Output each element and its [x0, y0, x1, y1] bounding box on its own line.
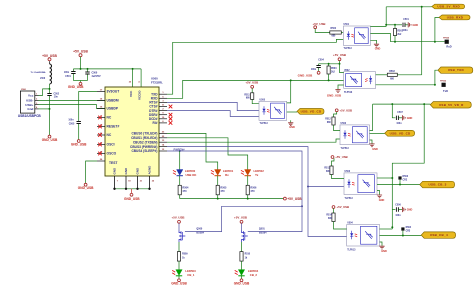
- svg-text:U506: U506: [341, 123, 347, 125]
- svg-text:R503: R503: [331, 68, 337, 70]
- svg-text:CBUS3 (PWREN#): CBUS3 (PWREN#): [130, 145, 157, 149]
- svg-text:USBDP: USBDP: [107, 107, 119, 111]
- svg-text:TLP513: TLP513: [347, 250, 356, 252]
- svg-text:FT232RL: FT232RL: [151, 80, 163, 84]
- svg-text:GND: GND: [124, 167, 128, 175]
- svg-text:U501: U501: [344, 24, 350, 26]
- svg-text:NC: NC: [107, 133, 112, 137]
- svg-text:+5V_USB: +5V_USB: [245, 81, 258, 85]
- svg-text:GND: GND: [381, 250, 387, 253]
- svg-text:NC: NC: [107, 116, 112, 120]
- svg-text:U503: U503: [345, 171, 351, 173]
- svg-text:R514: R514: [326, 214, 332, 217]
- svg-text:RESET#: RESET#: [107, 125, 120, 129]
- svg-text:D503: D503: [403, 176, 409, 178]
- svg-text:GND_USB: GND_USB: [71, 142, 87, 146]
- svg-text:GND_USB: GND_USB: [78, 186, 94, 190]
- svg-text:R511: R511: [244, 94, 250, 96]
- svg-text:USB_RXD: USB_RXD: [447, 16, 464, 20]
- svg-text:R509: R509: [182, 254, 188, 256]
- svg-text:VCCIO: VCCIO: [137, 90, 141, 100]
- svg-text:R502: R502: [389, 71, 395, 73]
- svg-text:+5V_USB: +5V_USB: [313, 22, 326, 26]
- svg-text:L500: L500: [40, 78, 46, 80]
- svg-text:10n: 10n: [54, 96, 59, 98]
- svg-text:Q501: Q501: [259, 227, 266, 230]
- svg-text:+5V_USB: +5V_USB: [172, 215, 185, 219]
- svg-text:TLP513: TLP513: [345, 198, 354, 200]
- svg-text:USB OK: USB OK: [186, 173, 197, 177]
- svg-text:TP500: TP500: [443, 38, 450, 40]
- svg-text:4u7/25V: 4u7/25V: [92, 75, 101, 78]
- svg-text:C502: C502: [54, 93, 60, 95]
- svg-text:GND_USB: GND_USB: [234, 282, 250, 286]
- svg-text:+5V_USB: +5V_USB: [335, 155, 348, 159]
- svg-text:+5V_USB: +5V_USB: [234, 215, 247, 219]
- svg-text:C505: C505: [69, 124, 75, 126]
- svg-text:J500: J500: [21, 89, 27, 91]
- svg-text:GND_USB: GND_USB: [124, 197, 140, 201]
- svg-text:USB_VD_CD: USB_VD_CD: [301, 110, 322, 114]
- svg-text:470: 470: [250, 190, 255, 193]
- svg-text:R500: R500: [331, 28, 337, 30]
- svg-text:100n: 100n: [396, 123, 402, 125]
- svg-text:Gnd: Gnd: [27, 107, 33, 111]
- svg-text:OSCI: OSCI: [107, 143, 115, 147]
- svg-text:TxD: TxD: [443, 89, 448, 93]
- svg-text:BSS84: BSS84: [259, 231, 267, 234]
- svg-text:BSS84: BSS84: [196, 231, 204, 234]
- svg-text:100n: 100n: [395, 215, 401, 217]
- svg-text:GND_USB: GND_USB: [42, 138, 58, 142]
- svg-text:470: 470: [220, 190, 225, 193]
- svg-text:+5V_USB: +5V_USB: [333, 53, 346, 57]
- svg-text:CBUS0 (TXLED#): CBUS0 (TXLED#): [131, 132, 157, 136]
- svg-text:+5V_USB: +5V_USB: [73, 50, 88, 54]
- svg-text:1: 1: [36, 94, 37, 96]
- svg-text:AGND: AGND: [148, 165, 152, 175]
- svg-text:USB_CB_3: USB_CB_3: [429, 183, 447, 187]
- svg-text:3V3OUT: 3V3OUT: [107, 90, 120, 94]
- svg-text:CB_2: CB_2: [250, 273, 258, 277]
- svg-text:GND: GND: [113, 167, 117, 175]
- svg-text:R505: R505: [220, 186, 227, 189]
- svg-text:TLP513: TLP513: [260, 123, 269, 125]
- svg-text:CBUS4 (SLEEP#): CBUS4 (SLEEP#): [131, 149, 157, 153]
- svg-text:GND: GND: [407, 209, 413, 212]
- svg-text:Rx: Rx: [225, 173, 229, 177]
- svg-text:USB1/USBPCB: USB1/USBPCB: [18, 114, 42, 118]
- svg-text:CR3: CR3: [406, 231, 411, 233]
- svg-text:R510: R510: [245, 254, 251, 256]
- svg-text:OSCO: OSCO: [107, 152, 117, 156]
- svg-text:Q500: Q500: [196, 227, 203, 230]
- svg-text:USBDM: USBDM: [107, 99, 119, 103]
- svg-text:+5V_USB: +5V_USB: [287, 197, 302, 201]
- svg-text:TLP513: TLP513: [344, 48, 353, 50]
- svg-text:TP502: TP502: [440, 81, 447, 83]
- svg-text:TLP513: TLP513: [344, 92, 353, 94]
- svg-text:RxD: RxD: [446, 44, 451, 48]
- svg-text:USB_CB_4: USB_CB_4: [430, 233, 448, 237]
- svg-text:GND: GND: [289, 126, 295, 129]
- svg-text:GND_USB: GND_USB: [298, 74, 314, 78]
- svg-text:USB_5V_VD_R: USB_5V_VD_R: [439, 103, 464, 107]
- svg-text:GND: GND: [136, 167, 140, 175]
- svg-text:GND: GND: [413, 24, 419, 27]
- svg-text:+5V_USB: +5V_USB: [340, 108, 353, 112]
- svg-text:GND: GND: [372, 148, 378, 151]
- svg-text:U502: U502: [344, 70, 350, 72]
- svg-text:D504: D504: [406, 226, 412, 229]
- svg-text:GND_USB: GND_USB: [327, 93, 341, 97]
- svg-text:+5V_USB: +5V_USB: [42, 54, 57, 58]
- svg-text:C500: C500: [92, 71, 98, 74]
- svg-text:+5V_USB: +5V_USB: [337, 205, 350, 209]
- svg-text:TL-1.5uH500MA: TL-1.5uH500MA: [30, 71, 46, 74]
- svg-text:C501: C501: [65, 76, 71, 78]
- svg-text:470: 470: [182, 190, 187, 193]
- svg-text:RI#: RI#: [153, 121, 158, 125]
- svg-text:CBUS1 (RXLED#): CBUS1 (RXLED#): [131, 136, 157, 140]
- svg-text:GND: GND: [375, 48, 381, 51]
- svg-text:C506: C506: [395, 204, 401, 206]
- svg-text:U505: U505: [260, 99, 266, 101]
- svg-text:C501: C501: [403, 19, 409, 21]
- svg-text:Vcc: Vcc: [28, 94, 34, 98]
- svg-text:VCC: VCC: [129, 90, 133, 97]
- svg-text:R504: R504: [182, 186, 189, 189]
- svg-text:R513: R513: [324, 168, 330, 170]
- svg-text:R501: R501: [397, 30, 403, 32]
- svg-text:100n: 100n: [68, 119, 74, 121]
- svg-text:TEST: TEST: [109, 161, 117, 165]
- svg-text:USB_TXD: USB_TXD: [448, 68, 465, 72]
- svg-text:CR2: CR2: [403, 180, 408, 182]
- svg-text:USB_5V_RXD: USB_5V_RXD: [437, 5, 460, 9]
- svg-text:100n: 100n: [402, 30, 408, 32]
- svg-text:GND_USB: GND_USB: [171, 282, 187, 286]
- svg-text:100n: 100n: [311, 69, 317, 71]
- svg-text:GND: GND: [407, 117, 413, 120]
- svg-text:R512: R512: [325, 118, 331, 120]
- svg-text:2: 2: [36, 99, 37, 101]
- svg-text:Tx: Tx: [255, 173, 259, 177]
- svg-text:GND: GND: [379, 199, 385, 202]
- svg-text:USB_VD_CD: USB_VD_CD: [390, 131, 411, 135]
- svg-text:CBUS2 (TXDEN): CBUS2 (TXDEN): [133, 140, 158, 144]
- svg-text:3: 3: [36, 103, 37, 105]
- svg-text:100n: 100n: [64, 72, 70, 74]
- svg-text:C504: C504: [318, 58, 324, 61]
- svg-text:C507: C507: [397, 112, 403, 114]
- svg-text:GND_USB: GND_USB: [68, 85, 84, 89]
- svg-text:U504: U504: [347, 222, 353, 225]
- svg-text:R506: R506: [250, 186, 257, 189]
- svg-text:TLP513: TLP513: [341, 148, 350, 150]
- svg-text:CB_1: CB_1: [187, 273, 195, 277]
